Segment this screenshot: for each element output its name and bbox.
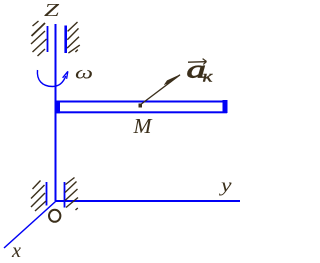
svg-text:M: M — [132, 114, 153, 138]
svg-text:ω: ω — [75, 63, 93, 83]
svg-text:y: y — [219, 176, 233, 197]
svg-text:к: к — [203, 69, 214, 86]
svg-text:Z: Z — [44, 0, 60, 20]
svg-text:x: x — [11, 240, 21, 262]
